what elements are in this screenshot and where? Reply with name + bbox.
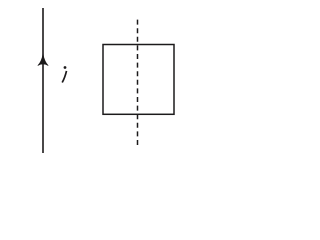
wire: [42, 8, 44, 153]
dashed axis line: [137, 20, 139, 145]
label i (current): dot: [64, 66, 67, 69]
square loop: [103, 45, 174, 115]
label i (current): stem: [62, 71, 66, 83]
arrowhead on wire: [38, 54, 48, 66]
